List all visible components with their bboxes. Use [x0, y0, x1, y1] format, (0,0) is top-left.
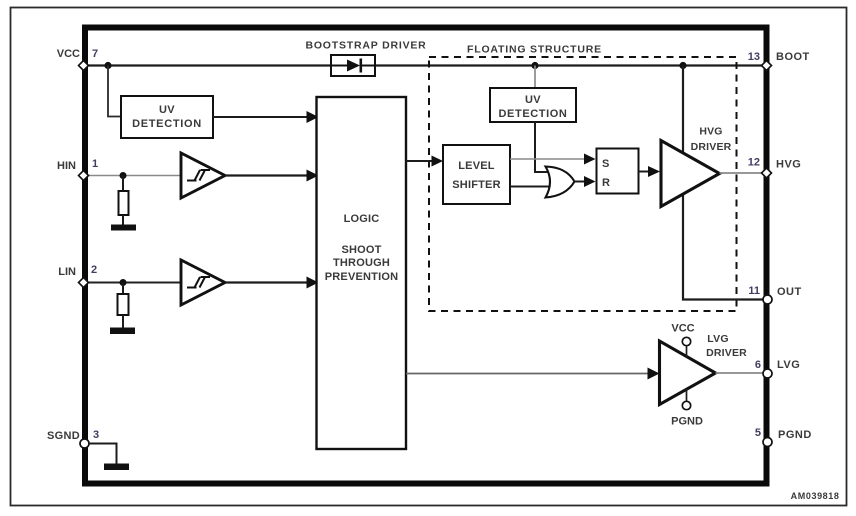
- wire HVG driver to pin 12: [720, 172, 764, 174]
- wire PGND terminal stub (LVG driver): [686, 389, 688, 402]
- node VCC junction: [104, 62, 111, 69]
- pin 5 marker (PGND): [763, 438, 772, 447]
- pull-down resistor on HIN: [119, 191, 129, 215]
- pin 2 marker (LIN): [79, 278, 89, 288]
- svg-text:BOOTSTRAP DRIVER: BOOTSTRAP DRIVER: [305, 40, 426, 52]
- svg-text:PREVENTION: PREVENTION: [325, 271, 399, 283]
- svg-text:DRIVER: DRIVER: [706, 347, 747, 359]
- wire floating UV detection to OR gate: [535, 122, 548, 172]
- svg-text:SHOOT: SHOOT: [341, 244, 381, 256]
- schmitt hysteresis symbol (LIN): [187, 277, 210, 288]
- OR gate: [546, 167, 575, 198]
- ground (HIN pull-down): [111, 225, 136, 231]
- ground (LIN pull-down): [110, 328, 135, 335]
- wire OR gate to R input: [574, 176, 596, 187]
- svg-text:PGND: PGND: [778, 429, 812, 441]
- bootstrap diode D1: [331, 59, 375, 73]
- svg-text:SHIFTER: SHIFTER: [452, 179, 500, 191]
- svg-text:LVG: LVG: [707, 333, 728, 345]
- PGND terminal circle (LVG driver): [682, 401, 690, 409]
- svg-text:LVG: LVG: [777, 359, 800, 371]
- schmitt trigger buffer (LIN): [181, 260, 225, 305]
- wire pin 2 to schmitt trigger (LIN): [88, 282, 182, 284]
- wire schmitt output to logic (HIN): [225, 170, 319, 182]
- node bootstrap rail junction (HVG rail): [679, 62, 686, 69]
- wire pin 1 to schmitt trigger (HIN): [88, 175, 182, 177]
- schmitt trigger buffer (HIN): [181, 153, 225, 198]
- svg-text:DRIVER: DRIVER: [691, 141, 732, 153]
- svg-text:11: 11: [748, 285, 760, 297]
- svg-text:PGND: PGND: [671, 416, 703, 428]
- LVG driver triangle: [660, 341, 716, 405]
- label LVG DRIVER: [706, 333, 747, 359]
- wire VCC/bootstrap rail (pin 7 to pin 13): [88, 64, 763, 66]
- svg-text:BOOT: BOOT: [776, 51, 810, 63]
- svg-text:HVG: HVG: [699, 126, 722, 138]
- svg-text:VCC: VCC: [671, 323, 694, 335]
- IC package outline: [85, 28, 767, 484]
- svg-text:HIN: HIN: [57, 160, 76, 172]
- svg-text:UV: UV: [159, 104, 175, 116]
- svg-text:FLOATING STRUCTURE: FLOATING STRUCTURE: [467, 44, 602, 56]
- svg-text:1: 1: [92, 158, 98, 170]
- SR latch: [597, 149, 639, 194]
- bootstrap diode box: [331, 55, 375, 76]
- level shifter block: [443, 145, 510, 204]
- wire pin 3 to ground: [89, 444, 117, 464]
- pin 1 marker (HIN): [79, 171, 89, 181]
- label HVG DRIVER: [691, 126, 732, 154]
- wire resistor to ground (HIN): [122, 215, 124, 225]
- svg-text:OUT: OUT: [777, 286, 802, 298]
- svg-text:DETECTION: DETECTION: [132, 118, 202, 130]
- svg-text:12: 12: [748, 157, 760, 169]
- svg-text:AM039818: AM039818: [791, 491, 840, 501]
- svg-text:UV: UV: [525, 94, 541, 106]
- pin 13 marker (BOOT): [762, 61, 772, 71]
- pin 12 marker (HVG): [762, 168, 772, 178]
- svg-text:2: 2: [91, 264, 97, 276]
- svg-text:DETECTION: DETECTION: [499, 108, 568, 120]
- svg-text:7: 7: [92, 48, 98, 60]
- wire LVG driver to pin 6: [716, 372, 764, 374]
- pin 3 marker (SGND): [80, 439, 89, 448]
- wire schmitt output to logic (LIN): [225, 277, 319, 289]
- wire logic to LVG driver: [406, 368, 660, 380]
- node LIN junction: [120, 279, 127, 286]
- svg-text:HVG: HVG: [776, 159, 801, 171]
- pin 11 marker (OUT): [763, 295, 772, 304]
- wire VCC junction to UV detection: [108, 66, 121, 117]
- logic block (shoot-through prevention): [317, 97, 407, 449]
- wire junction to floating UV detection: [534, 66, 536, 89]
- svg-text:THROUGH: THROUGH: [333, 257, 390, 269]
- svg-text:SGND: SGND: [47, 430, 80, 442]
- VCC terminal circle (LVG driver): [682, 337, 690, 345]
- svg-text:6: 6: [755, 359, 761, 371]
- svg-text:13: 13: [748, 51, 760, 63]
- svg-text:R: R: [602, 177, 610, 189]
- node bootstrap rail junction (floating UV): [531, 62, 538, 69]
- wire LIN junction to pull-down resistor: [122, 283, 124, 295]
- svg-text:5: 5: [755, 427, 761, 439]
- wire logic to level shifter: [406, 156, 443, 167]
- UV detection block (floating): [490, 88, 576, 122]
- svg-text:LIN: LIN: [58, 266, 76, 278]
- pin 7 marker (VCC): [79, 61, 89, 71]
- ground (SGND): [104, 464, 129, 471]
- wire SR latch to HVG driver: [639, 166, 661, 177]
- pull-down resistor on LIN: [118, 294, 129, 315]
- node HIN junction: [120, 172, 127, 179]
- pin 6 marker (LVG): [763, 369, 772, 378]
- svg-text:LEVEL: LEVEL: [458, 160, 495, 172]
- schmitt hysteresis symbol (HIN): [187, 170, 210, 181]
- floating structure boundary (dashed): [429, 57, 737, 311]
- svg-text:LOGIC: LOGIC: [344, 213, 380, 225]
- wire level shifter to OR gate: [510, 186, 551, 188]
- svg-text:VCC: VCC: [57, 48, 80, 60]
- UV detection block (VCC side): [121, 96, 213, 138]
- wire HVG rail down and across to pin 11 (OUT): [683, 66, 763, 300]
- svg-text:3: 3: [93, 429, 99, 441]
- wire HIN junction to pull-down resistor: [122, 176, 124, 192]
- wire resistor to ground (LIN): [122, 315, 124, 328]
- wire VCC terminal stub (LVG driver): [686, 345, 688, 357]
- wire level shifter to S input: [510, 154, 596, 165]
- HVG driver triangle: [661, 141, 720, 207]
- svg-text:S: S: [602, 158, 609, 170]
- wire UV detection to logic block: [213, 111, 319, 123]
